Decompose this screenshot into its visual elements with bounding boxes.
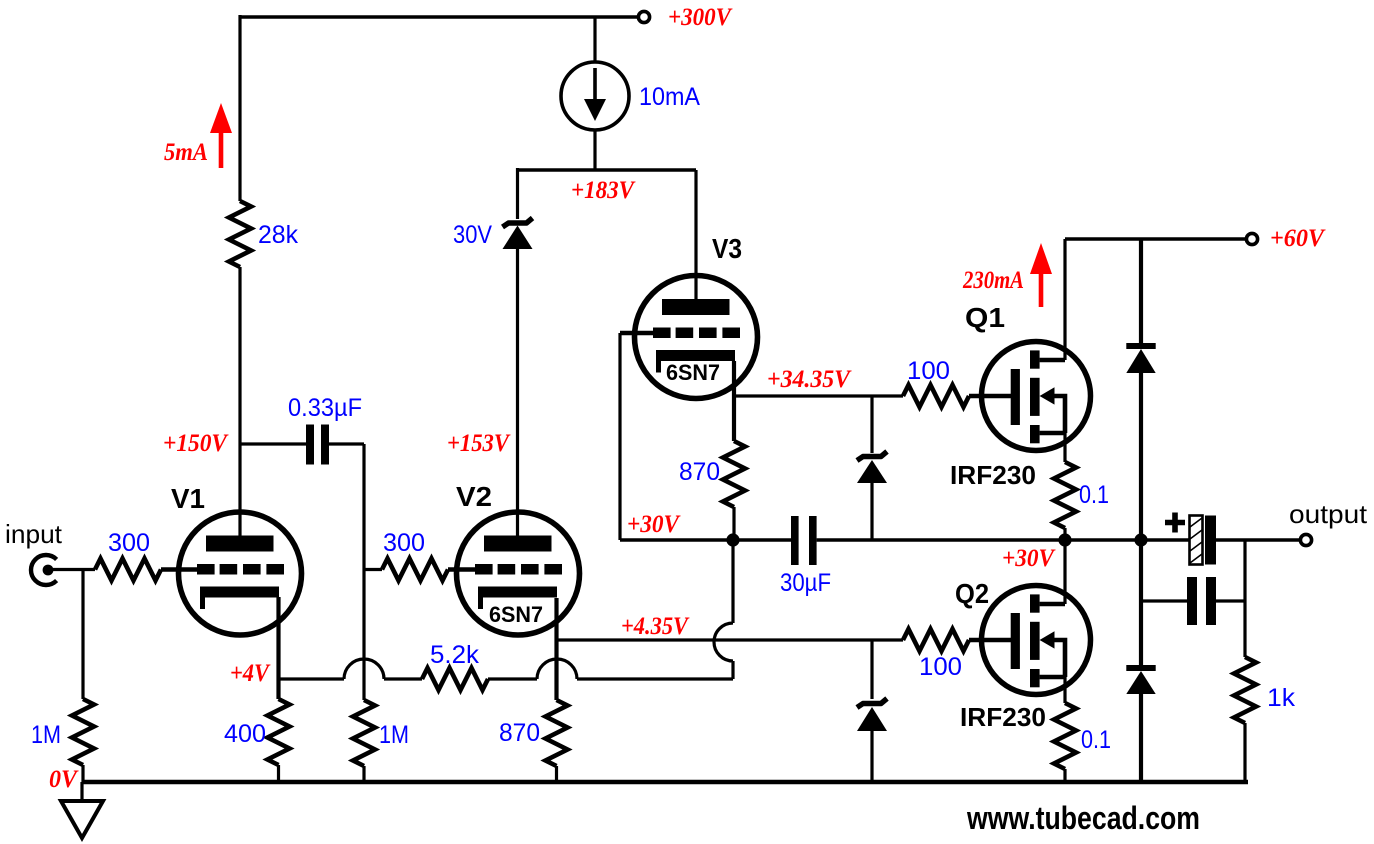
svg-text:5.2k: 5.2k	[430, 641, 480, 669]
svg-text:6SN7: 6SN7	[489, 602, 543, 627]
capacitor 30uF	[791, 516, 799, 565]
svg-text:+153V: +153V	[447, 430, 511, 457]
terminal output	[1300, 534, 1311, 545]
svg-text:10mA: 10mA	[639, 83, 700, 111]
svg-text:0.33µF: 0.33µF	[288, 394, 362, 422]
current arrow 5mA	[219, 130, 224, 168]
wire +34.35V to zener Z1	[870, 396, 873, 453]
svg-text:1k: 1k	[1267, 684, 1296, 712]
svg-text:1M: 1M	[31, 721, 61, 749]
mosfet Q2 IRF230	[982, 586, 1091, 695]
wire +4V run a	[279, 677, 345, 680]
wire +4.35V to zener Z2	[870, 640, 873, 699]
zener Z2 lower	[857, 699, 887, 708]
capacitor output electrolytic	[1165, 513, 1185, 533]
wire +300V to current source	[593, 17, 596, 62]
wire 0.1 Q2 to ground rail	[1063, 769, 1066, 782]
svg-text:28k: 28k	[258, 221, 298, 249]
svg-text:+4.35V: +4.35V	[621, 613, 690, 640]
wire +34.35V run	[734, 394, 903, 397]
wire 1M to ground rail	[81, 765, 84, 782]
resistor 28k	[229, 201, 251, 267]
wire V1 plate to cap	[240, 442, 306, 445]
svg-text:870: 870	[499, 719, 540, 747]
zener D30 30V	[503, 218, 533, 227]
wire V1 cathode lead	[276, 597, 280, 699]
resistor 870 V2 cathode	[546, 700, 568, 766]
triode V3 6SN7	[635, 276, 758, 399]
svg-text:100: 100	[919, 653, 962, 681]
svg-text:+4V: +4V	[230, 660, 271, 687]
wire zener to V2 plate	[516, 248, 519, 536]
svg-text:400: 400	[224, 720, 266, 748]
svg-text:100: 100	[907, 357, 950, 385]
resistor 0.1 Q1	[1054, 462, 1076, 528]
svg-text:IRF230: IRF230	[950, 460, 1036, 490]
wire +4V run b	[384, 677, 422, 680]
resistor 1k	[1234, 657, 1256, 723]
wire V3 grid to +30V node	[618, 333, 621, 540]
svg-text:V3: V3	[712, 233, 742, 264]
current arrow 230mA	[1039, 272, 1044, 307]
wire ground stub	[80, 782, 83, 801]
wire zener Z2 to ground	[870, 731, 873, 782]
svg-text:+60V: +60V	[1270, 225, 1326, 252]
wire hop over V2 cathode	[537, 659, 577, 679]
svg-text:IRF230: IRF230	[960, 702, 1046, 732]
triode V1	[179, 512, 302, 635]
input jack terminal	[31, 555, 57, 585]
wire 300 to V1 grid	[161, 567, 197, 571]
wire Q1 source lead	[1063, 433, 1066, 462]
svg-text:300: 300	[108, 529, 150, 557]
resistor 1M input	[72, 699, 94, 765]
junction +30V / feedback node	[726, 533, 739, 546]
wire 1M V2 to ground rail	[362, 766, 365, 782]
wire +4V run c	[488, 677, 537, 680]
wire ground rail	[82, 780, 1248, 784]
wire +183V rail	[518, 168, 697, 171]
svg-text:+183V: +183V	[571, 177, 636, 204]
wire V3 grid lead	[620, 331, 653, 335]
wire V2 cathode lead	[554, 598, 558, 700]
wire +60V rail	[1065, 237, 1246, 240]
svg-text:V1: V1	[171, 483, 205, 514]
svg-text:0V: 0V	[49, 766, 79, 793]
wire input to grid resistor	[48, 568, 95, 571]
diode D1	[1126, 343, 1155, 349]
wire 1k to ground rail	[1243, 723, 1246, 782]
current source CS1 10mA	[561, 62, 629, 130]
wire +60V to diode D1	[1139, 239, 1143, 346]
wire film cap right lead	[1216, 599, 1245, 602]
diode D2	[1126, 665, 1155, 671]
svg-text:+34.35V: +34.35V	[767, 366, 852, 393]
wire film cap left lead	[1141, 599, 1187, 602]
wire Q2 drain from +30V rail	[1063, 540, 1066, 604]
wire current source to node +183V	[593, 130, 596, 170]
svg-text:Q1: Q1	[965, 302, 1005, 333]
svg-text:30µF: 30µF	[780, 569, 831, 597]
resistor 300 V1 grid	[95, 559, 161, 581]
wire output run	[1216, 538, 1300, 541]
wire +183V to zener D30	[516, 168, 519, 219]
wire +30V rail mid	[817, 538, 1189, 542]
svg-text:output: output	[1289, 499, 1368, 529]
wire 0.1 Q1 to +30V rail	[1063, 528, 1066, 540]
wire 400 to ground rail	[277, 765, 280, 782]
svg-text:230mA: 230mA	[962, 267, 1024, 294]
wire left HV drop upper	[238, 15, 241, 201]
wire top +300V rail	[240, 15, 638, 18]
terminal +300V	[638, 11, 649, 22]
wire feedback riser with hop	[714, 540, 733, 679]
wire input to 1M	[81, 570, 84, 700]
wire output to 1k branch	[1243, 540, 1246, 657]
wire 28k to V1 plate	[238, 267, 241, 536]
svg-text:+300V: +300V	[668, 4, 733, 31]
svg-text:0.1: 0.1	[1081, 726, 1111, 754]
wire Q2 source lead	[1063, 677, 1066, 703]
triode V2 6SN7	[457, 512, 580, 635]
capacitor film output	[1187, 577, 1197, 625]
zener Z1 upper	[857, 452, 887, 461]
svg-text:www.tubecad.com: www.tubecad.com	[966, 800, 1200, 836]
junction +30V / diode string	[1134, 533, 1147, 546]
wire 870 to +30V node	[732, 507, 735, 540]
wire D1 to +30V rail	[1139, 373, 1143, 540]
capacitor 0.33uF	[306, 425, 314, 465]
wire zener Z1 to +30V rail	[870, 483, 873, 540]
svg-text:+30V: +30V	[627, 511, 681, 538]
wire 300 to V2 grid	[448, 567, 475, 571]
resistor 870 V3 cathode	[723, 441, 745, 507]
resistor 5.2k feedback	[422, 668, 488, 690]
resistor 400	[268, 699, 290, 765]
svg-text:V2: V2	[456, 481, 492, 512]
svg-text:+30V: +30V	[1002, 545, 1056, 572]
svg-text:300: 300	[383, 529, 425, 557]
resistor 100 Q1 gate	[903, 385, 969, 407]
wire D2 to ground	[1139, 694, 1143, 782]
wire V2 grid leak drop	[362, 444, 365, 700]
wire +30V rail left	[620, 538, 791, 542]
svg-text:+150V: +150V	[163, 430, 229, 457]
svg-text:6SN7: 6SN7	[666, 360, 720, 385]
ground symbol	[61, 801, 103, 838]
svg-text:30V: 30V	[453, 221, 492, 249]
wire 100 to Q1 gate	[969, 394, 1011, 398]
resistor 300 V2 grid	[382, 559, 448, 581]
junction +30V / Q1-Q2 node	[1058, 533, 1071, 546]
svg-text:0.1: 0.1	[1079, 481, 1109, 509]
wire Q1 drain to +60V rail	[1063, 239, 1066, 360]
wire hop over V2-grid branch	[344, 659, 384, 679]
wire +4.35V run to Q2 gate resistor	[557, 638, 904, 641]
mosfet Q1 IRF230	[982, 342, 1091, 451]
svg-text:Q2: Q2	[955, 578, 989, 609]
svg-text:input: input	[5, 519, 63, 549]
svg-text:1M: 1M	[379, 721, 409, 749]
wire V3 cathode lead	[732, 361, 736, 441]
wire +4V run d	[577, 677, 733, 680]
terminal +60V	[1246, 233, 1257, 244]
resistor 1M V2 grid	[353, 700, 375, 766]
wire branch to 300 V2	[364, 568, 382, 571]
wire 870 V2 to ground rail	[555, 766, 558, 782]
svg-text:5mA: 5mA	[164, 139, 208, 166]
wire +183V to V3 plate	[694, 170, 697, 300]
resistor 100 Q2 gate	[903, 629, 969, 651]
wire 100 to Q2 gate	[969, 638, 1011, 642]
wire +30V to diode D2	[1139, 540, 1143, 668]
wire cap to V2 grid branch	[329, 442, 364, 445]
svg-text:870: 870	[679, 458, 720, 486]
resistor 0.1 Q2	[1054, 703, 1076, 769]
